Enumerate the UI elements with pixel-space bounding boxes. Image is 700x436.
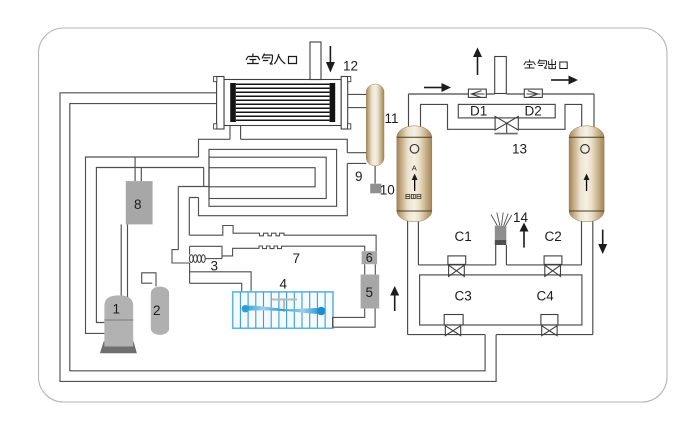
- svg-text:10: 10: [380, 183, 395, 198]
- D1 D2 label box: [458, 104, 555, 118]
- valve C1: [448, 256, 466, 277]
- arrow down near tower B: [598, 230, 607, 254]
- fan blades: [244, 306, 284, 312]
- condenser fan box 4: [233, 292, 333, 328]
- svg-text:5: 5: [366, 285, 374, 300]
- wire coil-left to compressor (lower): [96, 168, 203, 323]
- svg-text:C3: C3: [455, 289, 472, 304]
- wire box8 bottom pipes: [121, 224, 127, 299]
- arrow up at outlet: [473, 48, 482, 76]
- wire C-line: [418, 264, 581, 266]
- drain block 10: [370, 184, 381, 194]
- svg-text:14: 14: [513, 210, 529, 225]
- wire big loop outer: [60, 93, 496, 382]
- valve C2: [544, 256, 562, 277]
- wire skid bottom frame: [408, 334, 593, 336]
- wire tower A inner top path to valve 13: [421, 104, 495, 129]
- wire run2 with dip bump: [190, 246, 365, 259]
- svg-text:C2: C2: [545, 229, 562, 244]
- arrow right before D1: [424, 83, 451, 92]
- coil rect R2: [209, 149, 337, 206]
- coil exit pipe to run1: [189, 198, 198, 236]
- accumulator 2: [151, 287, 169, 335]
- svg-text:3: 3: [211, 259, 219, 274]
- wire HX right stub to vessel 11: [348, 94, 367, 107]
- svg-text:C4: C4: [537, 289, 555, 304]
- filter 6: [362, 251, 378, 264]
- wire top main line (towers to outlet): [409, 93, 595, 95]
- svg-text:6: 6: [366, 251, 373, 265]
- evaporator coil block: [178, 139, 366, 235]
- svg-text:9: 9: [355, 169, 363, 184]
- check valve D2: [524, 89, 542, 98]
- arrow right after D2: [551, 76, 578, 85]
- compressor 1: [100, 295, 137, 353]
- wire purge rectangle C3/C4: [420, 275, 582, 325]
- filter box 8: [126, 181, 153, 224]
- svg-text:13: 13: [512, 142, 527, 157]
- check valve D1: [468, 89, 486, 98]
- wire tower A bottom pipes: [408, 221, 419, 335]
- wire between 6 and 5: [365, 264, 376, 274]
- svg-text:C1: C1: [455, 229, 472, 244]
- coil left step: [178, 168, 209, 187]
- wire tower B inner top path from valve 13: [519, 104, 582, 129]
- vessel 11: [366, 84, 384, 166]
- wire from 5 down to fan box: [333, 309, 376, 328]
- wire run1 with expansion bump (coil to box6): [189, 226, 376, 252]
- wire muffler drop pipe: [496, 245, 507, 265]
- coil stub to vessel 11: [347, 153, 366, 164]
- heat exchanger E1: [214, 77, 351, 130]
- label air inlet (kong qi ru kou): [246, 54, 297, 65]
- svg-text:1: 1: [113, 302, 121, 317]
- air outlet pipe: [495, 57, 507, 94]
- wire tower B bottom pipes: [582, 221, 593, 335]
- wire vessel2 trap: [142, 187, 251, 292]
- svg-text:D2: D2: [525, 104, 542, 119]
- adsorption tower B: [569, 126, 604, 222]
- label air outlet (kong qi chu kou): [524, 59, 567, 69]
- border frame: [39, 28, 668, 402]
- wire coil-left to compressor (upper): [86, 157, 199, 333]
- svg-text:12: 12: [343, 59, 358, 74]
- wire tower B top outer riser: [593, 94, 595, 128]
- svg-text:D1: D1: [470, 104, 487, 119]
- arrow up near 5: [390, 286, 399, 311]
- filter 5: [361, 275, 380, 309]
- svg-text:8: 8: [134, 197, 142, 212]
- svg-text:4: 4: [280, 277, 288, 292]
- arrow 12 (down): [326, 46, 335, 73]
- svg-text:7: 7: [293, 251, 301, 266]
- adsorption tower A: [397, 126, 432, 222]
- left refrigerant lines: [86, 157, 204, 333]
- valve C4: [541, 315, 558, 336]
- wire stem 9 below vessel 11: [374, 166, 376, 184]
- wire coil feed pair from HX bottom: [230, 126, 241, 140]
- svg-text:A: A: [412, 164, 417, 173]
- air inlet pipe: [310, 42, 321, 80]
- svg-text:2: 2: [153, 303, 161, 318]
- valve 13: [495, 116, 519, 133]
- coil rect R4: [209, 168, 315, 187]
- valve C3: [444, 315, 463, 336]
- muffler 14: [491, 213, 512, 246]
- wire coil step down to staircase and condenser feed: [172, 187, 251, 292]
- svg-text:11: 11: [385, 111, 399, 126]
- wire tower A top outer riser: [408, 94, 410, 128]
- wire box8 top pipes: [135, 157, 141, 181]
- coil outer rect R1: [198, 139, 347, 215]
- capillary spring 3: [189, 246, 222, 262]
- arrow up near muffler: [520, 223, 529, 248]
- coil rect R3: [209, 157, 326, 198]
- wire big loop inner: [70, 104, 485, 371]
